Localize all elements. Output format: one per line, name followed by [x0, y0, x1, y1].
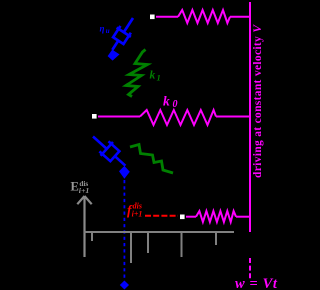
node square i+1 (bottom)	[180, 215, 185, 220]
svg-text:k: k	[150, 70, 156, 82]
disorder baseline	[84, 231, 234, 233]
label E dis i+1	[71, 180, 90, 195]
svg-text:w = Vt: w = Vt	[235, 276, 278, 290]
disorder pin 1	[91, 232, 93, 241]
blue dashed line: particle position u	[123, 180, 125, 280]
svg-text:k: k	[163, 94, 170, 109]
driving wall	[249, 2, 251, 232]
driving wall dashed extension	[249, 258, 251, 279]
disorder pin 2	[130, 232, 132, 263]
dashpot eta_u (upper)	[105, 13, 140, 54]
svg-text:0: 0	[173, 99, 178, 110]
E axis arrow	[77, 196, 91, 257]
disorder pin 5	[215, 232, 217, 245]
spring to wall (top)	[178, 10, 230, 23]
spring k1 (lower)	[130, 145, 173, 174]
wire: top spring to wall	[230, 16, 250, 18]
node square i (middle)	[92, 114, 97, 119]
disorder pin 4	[181, 232, 183, 257]
label f dis i+1	[127, 202, 142, 219]
dashpot upper diamond end	[108, 50, 120, 61]
blue diamond marker (bottom)	[120, 281, 129, 290]
wire: bottom node to spring	[186, 216, 196, 218]
dashpot (lower)	[87, 130, 132, 173]
spring k1 (upper)	[126, 50, 148, 97]
svg-text:η: η	[100, 24, 105, 34]
svg-text:E: E	[71, 180, 79, 194]
wire: bottom spring to wall	[236, 216, 250, 218]
svg-text:driving at constant velocity V: driving at constant velocity V	[252, 24, 264, 178]
wire: top node to spring	[156, 16, 178, 18]
svg-text:1: 1	[157, 72, 161, 82]
spring k0	[140, 110, 216, 125]
spring to wall (bottom)	[196, 211, 236, 222]
red dashed line: u dis i+1	[145, 215, 178, 217]
wire: middle node to spring k0	[98, 116, 140, 118]
svg-text:i+1: i+1	[79, 186, 90, 195]
dashpot lower diamond end	[119, 166, 130, 179]
wire: spring k0 to wall	[216, 116, 250, 118]
svg-text:i+1: i+1	[132, 210, 143, 219]
node square i-1 (top)	[150, 15, 155, 20]
svg-text:u: u	[106, 27, 110, 35]
disorder pin 3	[147, 232, 149, 253]
